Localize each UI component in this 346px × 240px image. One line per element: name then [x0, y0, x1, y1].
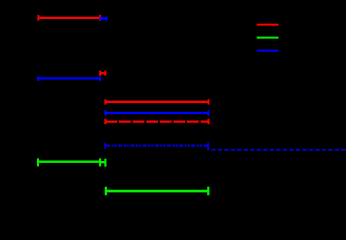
errorbar blue row1 short: [101, 17, 107, 21]
line blue row6 dotted extension: [211, 149, 346, 151]
legend line green: [257, 37, 279, 39]
errorbar green row8: [106, 187, 209, 195]
legend line blue: [257, 50, 279, 52]
errorbar blue row4: [105, 110, 208, 115]
errorbar red row5 dashed: [105, 119, 208, 124]
errorbar green row7 short: [100, 159, 105, 167]
errorbar red row1 long: [38, 15, 99, 21]
errorbar red row3: [105, 99, 208, 104]
errorbar red row2 short: [100, 71, 105, 76]
errorbar blue row6 dash-dot: [105, 143, 208, 151]
errorbar blue row2 long: [38, 76, 100, 81]
errorbar green row7 long: [38, 158, 100, 166]
legend line red: [257, 24, 279, 26]
